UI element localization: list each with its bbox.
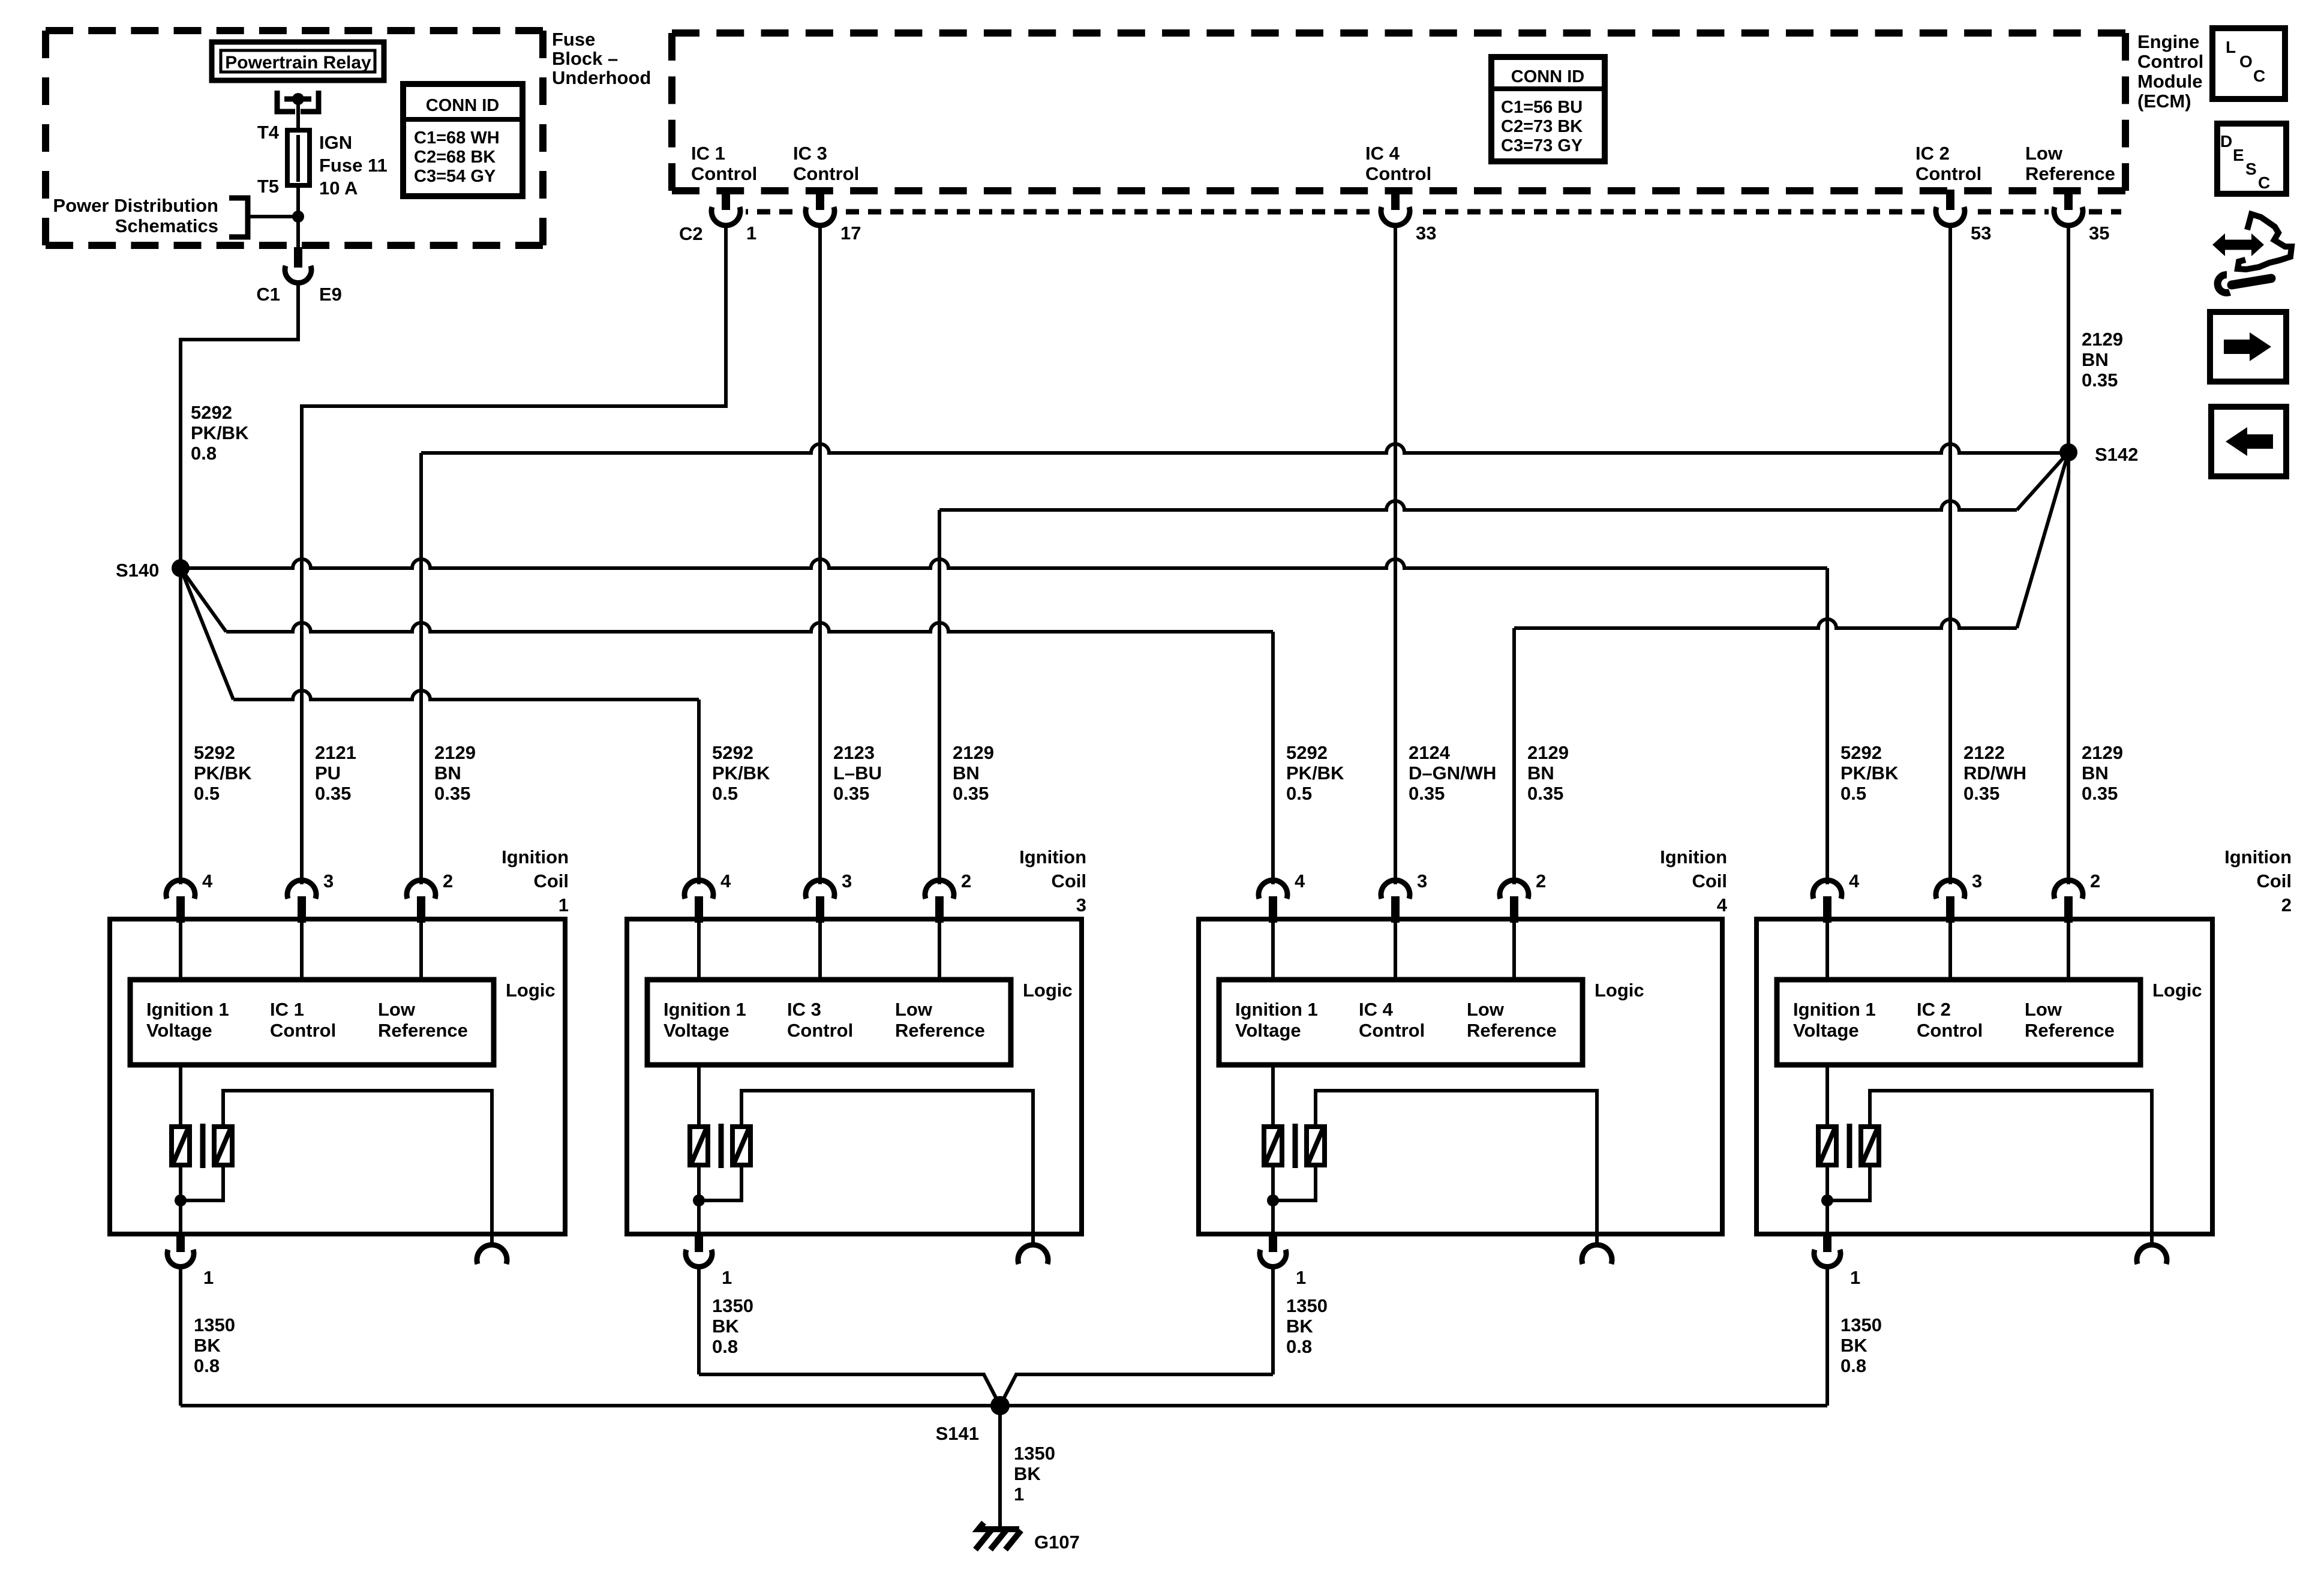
svg-text:1: 1 bbox=[1296, 1267, 1306, 1288]
svg-text:Coil: Coil bbox=[533, 870, 569, 891]
coil 3 core bbox=[719, 1124, 724, 1168]
svg-text:1350: 1350 bbox=[712, 1295, 753, 1316]
svg-text:Ignition: Ignition bbox=[502, 846, 569, 867]
svg-text:S140: S140 bbox=[116, 560, 159, 581]
wire pin 2 into logic box bbox=[419, 921, 423, 982]
wire 1350 coil4 pin1 to S141 bbox=[1000, 1374, 1273, 1406]
svg-text:2129: 2129 bbox=[1527, 742, 1569, 763]
svg-text:Control: Control bbox=[691, 163, 757, 184]
svg-text:0.35: 0.35 bbox=[953, 783, 989, 804]
svg-text:T5: T5 bbox=[257, 176, 279, 197]
svg-text:1: 1 bbox=[203, 1267, 214, 1288]
svg-text:IC 3: IC 3 bbox=[793, 143, 827, 164]
wire pin 2 into logic box bbox=[938, 921, 941, 982]
svg-text:4: 4 bbox=[720, 870, 731, 891]
svg-text:D–GN/WH: D–GN/WH bbox=[1409, 763, 1496, 784]
wire pin 4 into logic box bbox=[1825, 921, 1829, 982]
wire 1350 BK from coil 3 pin 1 bbox=[697, 1265, 701, 1374]
svg-text:5292: 5292 bbox=[1286, 742, 1328, 763]
svg-text:Reference: Reference bbox=[1467, 1020, 1557, 1041]
wire bus 5292 S140 to coil 3 pin 4 bbox=[181, 568, 233, 700]
wire secondary top to output bbox=[223, 1091, 492, 1247]
svg-text:0.35: 0.35 bbox=[1963, 783, 1999, 804]
conn id table (ECM) bbox=[1491, 57, 1605, 161]
svg-text:E: E bbox=[2233, 146, 2244, 164]
svg-text:Low: Low bbox=[2025, 143, 2063, 164]
svg-text:IC 4: IC 4 bbox=[1359, 999, 1394, 1020]
svg-text:Logic: Logic bbox=[506, 980, 556, 1001]
svg-text:Control: Control bbox=[793, 163, 859, 184]
svg-text:5292: 5292 bbox=[194, 742, 235, 763]
svg-text:PK/BK: PK/BK bbox=[191, 422, 249, 443]
wire bus 5292 S140 to coil 4 pin 4 bbox=[181, 568, 226, 632]
svg-text:S: S bbox=[2245, 160, 2257, 178]
ECM pin 1 connector bbox=[706, 199, 746, 223]
svg-text:Coil: Coil bbox=[2256, 870, 2292, 891]
svg-text:Underhood: Underhood bbox=[552, 67, 651, 88]
relay contact symbol bbox=[277, 91, 295, 112]
svg-text:Voltage: Voltage bbox=[146, 1020, 212, 1041]
coil 1 pin 3 connector bbox=[287, 880, 316, 899]
coil 2 pin 4 connector bbox=[1813, 880, 1842, 899]
svg-text:Reference: Reference bbox=[895, 1020, 985, 1041]
junction dot primary/secondary bbox=[693, 1194, 705, 1206]
svg-text:10 A: 10 A bbox=[319, 178, 358, 199]
svg-text:0.8: 0.8 bbox=[1286, 1336, 1312, 1357]
svg-text:Control: Control bbox=[2137, 51, 2203, 72]
svg-text:BN: BN bbox=[953, 763, 980, 784]
junction dot primary/secondary bbox=[1267, 1194, 1279, 1206]
svg-text:C1=68 WH: C1=68 WH bbox=[414, 128, 500, 148]
wire pin 3 into logic box bbox=[1948, 921, 1952, 982]
coil 3 pin 3 connector bbox=[806, 880, 834, 899]
wire bus 2129 coil 3 pin 2 to S142 bbox=[939, 501, 2017, 510]
ground G107 bbox=[975, 1523, 1021, 1550]
svg-text:D: D bbox=[2220, 132, 2232, 151]
svg-text:2121: 2121 bbox=[315, 742, 356, 763]
svg-text:2124: 2124 bbox=[1409, 742, 1451, 763]
svg-text:1: 1 bbox=[722, 1267, 732, 1288]
svg-text:2: 2 bbox=[961, 870, 971, 891]
svg-text:Power Distribution: Power Distribution bbox=[53, 195, 218, 216]
wire 1350 coil1 pin1 to coil2 pin1 through S141 bbox=[181, 1404, 1827, 1407]
icon hand with double arrow and wrench bbox=[2212, 214, 2292, 293]
wire fuse to connector C1/E9 bbox=[296, 185, 300, 252]
svg-text:Control: Control bbox=[1359, 1020, 1425, 1041]
wire secondary top to output bbox=[1870, 1091, 2152, 1247]
wire pin 3 into logic box bbox=[1394, 921, 1397, 982]
wire bus 2129 coil 1 pin 2 to S142 bbox=[421, 444, 2068, 453]
wire relay to fuse bbox=[296, 99, 300, 185]
wire pin 4 into logic box bbox=[179, 921, 182, 982]
svg-text:Ignition 1: Ignition 1 bbox=[663, 999, 746, 1020]
svg-text:Ignition: Ignition bbox=[1660, 846, 1727, 867]
wire 2121 ECM pin 1 to coil 1 pin 3 bbox=[302, 224, 726, 884]
wire secondary top to output bbox=[741, 1091, 1033, 1247]
svg-text:4: 4 bbox=[202, 870, 213, 891]
svg-text:C3=73 GY: C3=73 GY bbox=[1501, 136, 1583, 155]
coil 3 pin 2 connector bbox=[925, 880, 954, 899]
coil 2 secondary winding bbox=[1861, 1127, 1879, 1165]
svg-text:Ignition 1: Ignition 1 bbox=[146, 999, 229, 1020]
ECM pin 53 connector bbox=[1930, 199, 1970, 223]
coil 2 primary winding bbox=[1818, 1127, 1836, 1165]
coil 4 pin 1 connector bbox=[1269, 1234, 1277, 1252]
svg-text:Module: Module bbox=[2137, 71, 2203, 92]
ECM pin 17 connector bbox=[800, 199, 840, 223]
svg-text:1: 1 bbox=[1850, 1267, 1860, 1288]
svg-text:1350: 1350 bbox=[194, 1314, 235, 1335]
wire pin 3 into logic box bbox=[300, 921, 304, 982]
coil 1 pin 2 connector bbox=[407, 880, 436, 899]
svg-text:BK: BK bbox=[1286, 1316, 1313, 1337]
svg-text:53: 53 bbox=[1971, 223, 1991, 244]
svg-text:BN: BN bbox=[1527, 763, 1554, 784]
conn id table (fuse block) bbox=[403, 84, 523, 196]
coil 4 core bbox=[1293, 1124, 1298, 1168]
wire primary bottom to pin 1 bbox=[179, 1165, 182, 1236]
wire secondary bottom to junction bbox=[1827, 1165, 1870, 1200]
svg-text:G107: G107 bbox=[1034, 1532, 1080, 1553]
svg-text:2: 2 bbox=[1536, 870, 1546, 891]
coil 3 secondary output connector bbox=[1018, 1245, 1048, 1264]
svg-text:Low: Low bbox=[1467, 999, 1505, 1020]
wire 2129 ECM pin 35 through S142 to coil 2 pin 2 bbox=[2067, 224, 2070, 884]
wire 1350 BK from coil 1 pin 1 bbox=[179, 1265, 182, 1406]
coil 3 pin 4 connector bbox=[684, 880, 713, 899]
wire primary bottom to pin 1 bbox=[697, 1165, 701, 1236]
svg-text:0.35: 0.35 bbox=[1409, 783, 1445, 804]
coil 3 logic box bbox=[647, 980, 1011, 1065]
svg-text:Low: Low bbox=[378, 999, 416, 1020]
wire 1350 BK from coil 4 pin 1 bbox=[1271, 1265, 1275, 1374]
ECM pin 35 connector bbox=[2049, 199, 2088, 223]
wire secondary bottom to junction bbox=[181, 1165, 223, 1200]
svg-text:BN: BN bbox=[2082, 349, 2109, 370]
svg-text:Low: Low bbox=[895, 999, 933, 1020]
svg-text:IGN: IGN bbox=[319, 132, 352, 153]
svg-text:IC 2: IC 2 bbox=[1917, 999, 1951, 1020]
wire pin 4 into logic box bbox=[697, 921, 701, 982]
ECM dashed enclosure bbox=[672, 29, 2125, 37]
svg-text:Control: Control bbox=[270, 1020, 336, 1041]
svg-text:PK/BK: PK/BK bbox=[1840, 763, 1899, 784]
svg-text:C1=56 BU: C1=56 BU bbox=[1501, 98, 1583, 117]
svg-text:2: 2 bbox=[443, 870, 453, 891]
svg-text:1: 1 bbox=[559, 894, 569, 915]
svg-text:BK: BK bbox=[194, 1335, 221, 1356]
svg-text:Coil: Coil bbox=[1692, 870, 1727, 891]
wire 1350 coil3 pin1 to S141 bbox=[699, 1374, 1000, 1406]
svg-text:1350: 1350 bbox=[1840, 1314, 1882, 1335]
svg-text:C2: C2 bbox=[679, 223, 703, 244]
splice S142 bbox=[2059, 443, 2077, 461]
coil 4 secondary winding bbox=[1307, 1127, 1325, 1165]
coil 4 primary winding bbox=[1264, 1127, 1282, 1165]
svg-text:Control: Control bbox=[1365, 163, 1431, 184]
wire pin 2 into logic box bbox=[1512, 921, 1516, 982]
svg-text:C: C bbox=[2253, 67, 2265, 85]
coil 4 secondary output connector bbox=[1582, 1245, 1612, 1264]
svg-text:2: 2 bbox=[2090, 870, 2100, 891]
svg-text:Logic: Logic bbox=[1595, 980, 1644, 1001]
fuse block underhood dashed enclosure bbox=[46, 27, 543, 34]
svg-text:Voltage: Voltage bbox=[663, 1020, 729, 1041]
svg-text:Schematics: Schematics bbox=[115, 215, 218, 236]
svg-text:Control: Control bbox=[787, 1020, 853, 1041]
svg-text:L: L bbox=[2226, 38, 2236, 56]
svg-text:2122: 2122 bbox=[1963, 742, 2005, 763]
svg-text:1350: 1350 bbox=[1014, 1443, 1055, 1464]
coil 3 secondary winding bbox=[732, 1127, 750, 1165]
svg-text:IC 1: IC 1 bbox=[691, 143, 725, 164]
svg-text:5292: 5292 bbox=[712, 742, 753, 763]
svg-text:0.35: 0.35 bbox=[2082, 783, 2118, 804]
svg-text:Engine: Engine bbox=[2137, 31, 2199, 52]
ignition coil 3 box bbox=[627, 919, 1082, 1234]
svg-text:C3=54 GY: C3=54 GY bbox=[414, 167, 496, 186]
coil 3 pin 1 connector bbox=[695, 1234, 703, 1252]
svg-text:T4: T4 bbox=[257, 122, 280, 143]
svg-text:0.8: 0.8 bbox=[191, 443, 217, 464]
svg-text:C2=73 BK: C2=73 BK bbox=[1501, 117, 1583, 136]
svg-text:1350: 1350 bbox=[1286, 1295, 1328, 1316]
svg-text:S142: S142 bbox=[2095, 444, 2138, 465]
svg-text:CONN ID: CONN ID bbox=[426, 96, 499, 115]
svg-text:2123: 2123 bbox=[833, 742, 875, 763]
wire pin 4 into logic box bbox=[1271, 921, 1275, 982]
junction node at fuse output bbox=[292, 211, 304, 223]
svg-text:Logic: Logic bbox=[2152, 980, 2202, 1001]
wire 2124 ECM pin 33 to coil 4 pin 3 bbox=[1394, 224, 1397, 884]
svg-text:0.35: 0.35 bbox=[1527, 783, 1563, 804]
svg-text:IC 4: IC 4 bbox=[1365, 143, 1400, 164]
svg-text:Fuse: Fuse bbox=[552, 29, 595, 50]
svg-text:Logic: Logic bbox=[1023, 980, 1073, 1001]
svg-text:Coil: Coil bbox=[1051, 870, 1086, 891]
icon DESC box bbox=[2217, 124, 2286, 194]
coil 1 secondary output connector bbox=[477, 1245, 507, 1264]
coil 4 pin 2 connector bbox=[1500, 880, 1529, 899]
svg-text:Ignition 1: Ignition 1 bbox=[1793, 999, 1876, 1020]
ignition coil 2 box bbox=[1756, 919, 2212, 1234]
svg-text:PK/BK: PK/BK bbox=[194, 763, 252, 784]
coil 3 primary winding bbox=[690, 1127, 708, 1165]
coil 1 pin 4 connector bbox=[166, 880, 195, 899]
coil 1 primary winding bbox=[172, 1127, 190, 1165]
svg-text:L–BU: L–BU bbox=[833, 763, 882, 784]
svg-text:O: O bbox=[2239, 52, 2253, 71]
svg-text:BK: BK bbox=[712, 1316, 739, 1337]
wire logic to primary winding bbox=[1271, 1065, 1275, 1127]
wire logic to primary winding bbox=[697, 1065, 701, 1127]
coil 1 logic box bbox=[130, 980, 494, 1065]
svg-text:C2=68 BK: C2=68 BK bbox=[414, 148, 496, 167]
svg-text:0.5: 0.5 bbox=[194, 783, 220, 804]
svg-text:Ignition: Ignition bbox=[2224, 846, 2292, 867]
ignition coil 4 box bbox=[1199, 919, 1722, 1234]
splice S141 bbox=[990, 1396, 1010, 1415]
svg-text:Reference: Reference bbox=[2025, 1020, 2115, 1041]
svg-text:BN: BN bbox=[2082, 763, 2109, 784]
svg-text:1: 1 bbox=[1014, 1484, 1024, 1505]
coil 1 core bbox=[200, 1124, 206, 1168]
wire pin 2 into logic box bbox=[2067, 921, 2070, 982]
relay K: Powertrain Relay box bbox=[212, 42, 384, 80]
svg-text:0.5: 0.5 bbox=[1286, 783, 1312, 804]
svg-text:4: 4 bbox=[1295, 870, 1305, 891]
svg-text:(ECM): (ECM) bbox=[2137, 91, 2191, 112]
wire 1350 BK from coil 2 pin 1 bbox=[1825, 1265, 1829, 1406]
svg-text:Reference: Reference bbox=[2025, 163, 2115, 184]
svg-text:Voltage: Voltage bbox=[1235, 1020, 1301, 1041]
svg-text:0.35: 0.35 bbox=[315, 783, 351, 804]
svg-text:2129: 2129 bbox=[953, 742, 994, 763]
coil 4 pin 3 connector bbox=[1381, 880, 1410, 899]
svg-text:C1: C1 bbox=[256, 284, 280, 305]
svg-text:BK: BK bbox=[1840, 1335, 1867, 1356]
svg-text:3: 3 bbox=[1417, 870, 1427, 891]
svg-text:IC 1: IC 1 bbox=[270, 999, 304, 1020]
svg-text:Block –: Block – bbox=[552, 48, 618, 69]
wire 2123 ECM pin 17 to coil 3 pin 3 bbox=[818, 224, 822, 884]
svg-text:BN: BN bbox=[434, 763, 461, 784]
coil 2 pin 3 connector bbox=[1936, 880, 1965, 899]
svg-text:33: 33 bbox=[1416, 223, 1436, 244]
coil 1 secondary winding bbox=[214, 1127, 232, 1165]
ignition coil 1 box bbox=[110, 919, 565, 1234]
svg-text:3: 3 bbox=[842, 870, 852, 891]
coil 2 logic box bbox=[1777, 980, 2140, 1065]
wire primary bottom to pin 1 bbox=[1271, 1165, 1275, 1236]
svg-text:0.8: 0.8 bbox=[712, 1336, 738, 1357]
svg-text:Ignition: Ignition bbox=[1019, 846, 1086, 867]
wire 2122 ECM pin 53 to coil 2 pin 3 bbox=[1948, 224, 1952, 884]
svg-text:Fuse 11: Fuse 11 bbox=[319, 155, 388, 176]
junction dot primary/secondary bbox=[175, 1194, 187, 1206]
svg-text:0.5: 0.5 bbox=[712, 783, 738, 804]
wire secondary bottom to junction bbox=[1273, 1165, 1316, 1200]
svg-text:0.5: 0.5 bbox=[1840, 783, 1866, 804]
icon left arrow box bbox=[2211, 407, 2286, 476]
svg-text:3: 3 bbox=[323, 870, 334, 891]
svg-text:2129: 2129 bbox=[434, 742, 476, 763]
connector C1 / E9 pin through fuse block border bbox=[294, 247, 302, 268]
svg-text:Low: Low bbox=[2025, 999, 2062, 1020]
svg-text:PU: PU bbox=[315, 763, 341, 784]
svg-text:Reference: Reference bbox=[378, 1020, 468, 1041]
svg-text:Powertrain Relay: Powertrain Relay bbox=[225, 53, 371, 73]
svg-text:5292: 5292 bbox=[1840, 742, 1882, 763]
svg-text:3: 3 bbox=[1076, 894, 1086, 915]
svg-text:3: 3 bbox=[1972, 870, 1982, 891]
svg-text:2129: 2129 bbox=[2082, 742, 2123, 763]
svg-text:0.35: 0.35 bbox=[833, 783, 869, 804]
svg-text:IC 3: IC 3 bbox=[787, 999, 821, 1020]
fuse F11 IGN Fuse 11 10A bbox=[287, 130, 310, 185]
svg-text:17: 17 bbox=[840, 223, 861, 244]
coil 4 pin 4 connector bbox=[1259, 880, 1287, 899]
svg-text:35: 35 bbox=[2089, 223, 2109, 244]
svg-text:0.8: 0.8 bbox=[194, 1355, 220, 1376]
svg-text:5292: 5292 bbox=[191, 402, 232, 423]
svg-text:Control: Control bbox=[1917, 1020, 1983, 1041]
ECM pin 33 connector bbox=[1376, 199, 1415, 223]
svg-text:Voltage: Voltage bbox=[1793, 1020, 1859, 1041]
svg-text:2: 2 bbox=[2281, 894, 2292, 915]
svg-text:0.8: 0.8 bbox=[1840, 1355, 1866, 1376]
svg-text:0.35: 0.35 bbox=[434, 783, 470, 804]
svg-text:BK: BK bbox=[1014, 1463, 1041, 1484]
wire logic to primary winding bbox=[179, 1065, 182, 1127]
svg-text:Control: Control bbox=[1915, 163, 1981, 184]
wire 5292 from connector E9 down and left bbox=[181, 281, 298, 884]
svg-text:CONN ID: CONN ID bbox=[1511, 67, 1584, 86]
wire pin 3 into logic box bbox=[818, 921, 822, 982]
svg-text:2129: 2129 bbox=[2082, 329, 2123, 350]
wire bus 2129 coil 4 pin 2 to S142 bbox=[1514, 619, 2017, 628]
svg-text:Ignition 1: Ignition 1 bbox=[1235, 999, 1318, 1020]
svg-text:0.35: 0.35 bbox=[2082, 370, 2118, 391]
wire 1350 BK 1 to ground bbox=[998, 1406, 1002, 1529]
wire secondary top to output bbox=[1316, 1091, 1597, 1247]
svg-text:C: C bbox=[2258, 173, 2270, 192]
icon LOC box bbox=[2212, 28, 2285, 99]
svg-text:E9: E9 bbox=[319, 284, 342, 305]
coil 2 pin 1 connector bbox=[1823, 1234, 1831, 1252]
svg-text:S141: S141 bbox=[936, 1423, 979, 1444]
wire primary bottom to pin 1 bbox=[1825, 1165, 1829, 1236]
coil 2 core bbox=[1847, 1124, 1852, 1168]
coil 4 logic box bbox=[1219, 980, 1583, 1065]
wire bus 5292 S140 to coil 2 pin 4 bbox=[181, 559, 1827, 568]
svg-text:IC 2: IC 2 bbox=[1915, 143, 1950, 164]
svg-text:PK/BK: PK/BK bbox=[1286, 763, 1344, 784]
wire secondary bottom to junction bbox=[699, 1165, 741, 1200]
svg-text:4: 4 bbox=[1849, 870, 1860, 891]
junction dot primary/secondary bbox=[1821, 1194, 1833, 1206]
icon right arrow box bbox=[2210, 312, 2286, 382]
ECM connector dotted line bbox=[713, 209, 2121, 215]
splice S140 bbox=[172, 559, 190, 577]
svg-text:RD/WH: RD/WH bbox=[1963, 763, 2026, 784]
coil 2 pin 2 connector bbox=[2054, 880, 2083, 899]
coil 1 pin 1 connector bbox=[176, 1234, 185, 1252]
svg-text:4: 4 bbox=[1717, 894, 1728, 915]
svg-text:1: 1 bbox=[746, 223, 756, 244]
svg-text:PK/BK: PK/BK bbox=[712, 763, 770, 784]
coil 2 secondary output connector bbox=[2137, 1245, 2167, 1264]
wire logic to primary winding bbox=[1825, 1065, 1829, 1127]
